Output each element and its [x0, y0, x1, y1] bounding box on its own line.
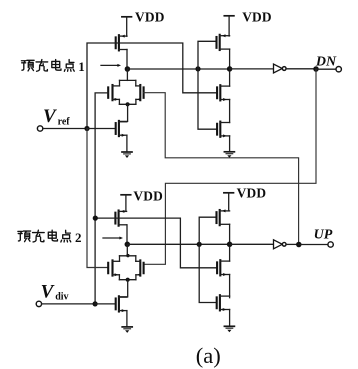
- transistor M4 NMOS 1: [216, 87, 218, 98]
- wire DN feedback to TG2b gate: [144, 69, 316, 264]
- wire precharge1 to stage2: [127, 68, 229, 70]
- svg-text:V: V: [43, 106, 57, 127]
- transistor TG1a (left): [107, 87, 109, 97]
- wire M6 gate to M9 gate: [95, 218, 217, 268]
- wire V_div to M7 gate: [95, 303, 116, 305]
- node UP stage output: [227, 242, 233, 248]
- ground GND2: [224, 151, 234, 153]
- node TG2 top: [126, 254, 129, 257]
- svg-text:V: V: [41, 281, 55, 302]
- inverter U2: [274, 240, 283, 249]
- wire UP to terminal: [299, 244, 328, 246]
- wire TG1a gate to M6 gate node and V_div node: [95, 93, 108, 304]
- wire V_div input: [42, 303, 94, 305]
- arrow to precharge node 2: [103, 237, 120, 239]
- node TG2 bottom: [126, 278, 130, 282]
- wire TG1b gate to UP node: [144, 93, 299, 245]
- transistor M8 PMOS output 2: [215, 212, 217, 223]
- transistor TG1b (right): [143, 87, 145, 97]
- svg-text:1: 1: [78, 59, 85, 74]
- wire V_ref bus to TG2a gate: [87, 129, 108, 268]
- power VDD rail 4 (right bottom): [224, 192, 234, 194]
- ground GND3: [122, 326, 132, 328]
- node V_ref junction: [84, 126, 89, 131]
- svg-text:2: 2: [75, 230, 82, 245]
- node DN: [313, 66, 319, 72]
- node stage2-1 gate column: [195, 66, 200, 71]
- svg-text:VDD: VDD: [242, 9, 272, 24]
- wire U1 to DN node: [286, 68, 316, 70]
- wire to M10 gate: [199, 244, 216, 302]
- wire stage2-2 output to inverter U2: [230, 243, 274, 245]
- transmission gate TG2 rails: [120, 255, 136, 257]
- label precharge point 1 (预充电点1): [21, 60, 34, 71]
- terminal V_ref: [37, 126, 42, 131]
- transistor M1 PMOS precharge 1: [115, 37, 117, 48]
- node TG1 bottom: [126, 102, 130, 106]
- wire node1 down to TG1: [126, 69, 128, 80]
- svg-text:VDD: VDD: [237, 185, 267, 200]
- transistor M10 NMOS 4: [216, 297, 218, 308]
- wire to M8 gate: [199, 217, 216, 244]
- transistor TG2a (left): [107, 263, 109, 273]
- terminal UP: [328, 242, 333, 247]
- svg-text:div: div: [55, 292, 68, 303]
- wire V_ref to M2 gate: [87, 128, 116, 130]
- wire V_ref input: [43, 128, 86, 130]
- wire V_ref bus to M1 gate and M4 gate: [87, 43, 217, 129]
- node M6 gate junction: [93, 216, 98, 221]
- wire node2 down to TG2: [126, 244, 128, 256]
- terminal V_div: [36, 301, 41, 306]
- node stage2-2 gate column: [197, 242, 202, 247]
- node V_div junction: [93, 301, 98, 306]
- inverter U1: [274, 64, 283, 73]
- arrow to precharge node 1: [101, 64, 118, 66]
- transistor TG2b (right): [143, 263, 145, 273]
- power VDD rail 1 (left): [122, 16, 132, 18]
- node precharge point 2: [125, 242, 131, 248]
- transistor M2 NMOS input 1: [115, 123, 117, 134]
- svg-text:UP: UP: [314, 228, 333, 243]
- svg-text:VDD: VDD: [133, 188, 163, 203]
- wire DN to terminal: [316, 68, 336, 70]
- transistor M6 PMOS precharge 2: [114, 213, 116, 224]
- wire TG1 bottom to M2 drain: [119, 104, 128, 122]
- transistor M7 NMOS input 2: [115, 299, 117, 310]
- wire U2 to UP node: [286, 243, 299, 245]
- wire stage2 output to inverter U1: [230, 68, 274, 70]
- transistor M3 PMOS output 1: [215, 37, 217, 48]
- power VDD rail 3 (left bottom): [121, 194, 131, 196]
- wire to M5 gate: [198, 69, 217, 129]
- node UP: [296, 242, 302, 248]
- transistor M9 NMOS 3: [216, 262, 218, 273]
- svg-text:DN: DN: [315, 55, 337, 70]
- svg-text:(a): (a): [196, 343, 221, 368]
- transistor M5 NMOS 2: [216, 124, 218, 135]
- node DN stage output: [227, 66, 233, 72]
- svg-text:ref: ref: [58, 117, 71, 128]
- wire precharge2 to stage2: [127, 243, 229, 245]
- wire to M3 gate: [198, 41, 216, 69]
- terminal DN: [336, 67, 341, 72]
- label precharge point 2 (预充电点2): [18, 231, 31, 242]
- wire TG2 bottom to M7 drain: [119, 280, 128, 298]
- ground GND1: [122, 151, 132, 153]
- power VDD rail 2 (right top): [224, 15, 234, 17]
- ground GND4: [224, 325, 234, 327]
- svg-text:VDD: VDD: [135, 10, 165, 25]
- transmission gate TG1 rails: [120, 79, 136, 81]
- node precharge point 1: [125, 66, 130, 72]
